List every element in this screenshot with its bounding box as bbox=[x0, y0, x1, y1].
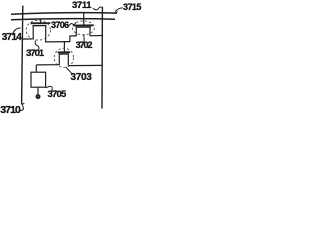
label 3714 bbox=[2, 33, 21, 43]
wire: 3705 bottom lead bbox=[37, 87, 39, 95]
label 3705 bbox=[48, 90, 66, 100]
label 3706 bbox=[51, 21, 68, 30]
wire: power supply line 3711 right vertical bbox=[101, 7, 103, 109]
transistor 3702 right leg bbox=[89, 27, 91, 36]
terminal circle below 3705 bbox=[36, 95, 40, 99]
wire: gate lead of transistor 3703 from node A bbox=[63, 42, 65, 53]
wire: 3703 source left to element node bbox=[36, 64, 60, 66]
leader arrow of label 3715 bbox=[115, 8, 123, 12]
wire: 3703 drain to right power line bbox=[68, 64, 102, 66]
transistor 3702 channel bbox=[76, 26, 91, 28]
transistor 3701 right leg bbox=[45, 26, 47, 42]
leader of label 3702 bbox=[83, 34, 85, 42]
transistor 3703 right leg bbox=[67, 54, 69, 66]
wire: signal line 3710 left vertical bbox=[22, 6, 23, 105]
label 3711 bbox=[72, 1, 91, 11]
dashed circle around transistor 3701 bbox=[26, 20, 50, 40]
transistor 3703 left leg bbox=[58, 54, 60, 65]
wire: power line 1 horizontal top bbox=[11, 13, 117, 15]
wire: gate lead of transistor 3702 from line 1 bbox=[83, 13, 85, 26]
light emitting element 3705 box bbox=[31, 72, 46, 87]
transistor 3703 channel bbox=[59, 53, 69, 55]
transistor 3702 left leg bbox=[75, 27, 77, 36]
dashed circle around transistor 3703 bbox=[54, 48, 73, 67]
leader of label 3711 bbox=[93, 7, 102, 10]
transistor 3703 gate bar bbox=[58, 51, 70, 53]
label 3710 bbox=[0, 105, 20, 116]
leader of label 3706 bbox=[69, 22, 76, 25]
wire: 3702 source wire left bbox=[69, 35, 76, 37]
label 3701 bbox=[26, 49, 43, 59]
wire: drop to light emitting element 3705 bbox=[35, 65, 37, 72]
leader of label 3701 bbox=[35, 41, 39, 50]
leader of label 3710 bbox=[20, 103, 24, 110]
label 3715 bbox=[123, 3, 141, 12]
leader of label 3703 bbox=[66, 67, 72, 74]
wire: node A horizontal from 3701 drain to 3703 gate bbox=[45, 41, 70, 43]
transistor 3701 channel bbox=[33, 25, 47, 27]
wire: 3702 drain to right power line bbox=[90, 35, 102, 37]
transistor 3701 left leg bbox=[32, 26, 34, 39]
wire: gate lead of transistor 3701 from line 2 bbox=[40, 19, 42, 24]
dashed circle around transistor 3702 bbox=[72, 21, 94, 35]
label 3703 bbox=[71, 73, 92, 83]
leader of label 3714 bbox=[13, 28, 21, 35]
leader of label 3705 bbox=[46, 86, 52, 90]
wire: 3701 source to signal line bbox=[22, 38, 34, 40]
transistor 3701 gate bar bbox=[31, 22, 51, 24]
transistor 3702 gate bar bbox=[73, 24, 93, 26]
wire: riser from node A up to 3702 source wire bbox=[69, 36, 71, 42]
wire: power line 2 horizontal below bbox=[11, 19, 115, 20]
label 3702 bbox=[76, 41, 92, 50]
